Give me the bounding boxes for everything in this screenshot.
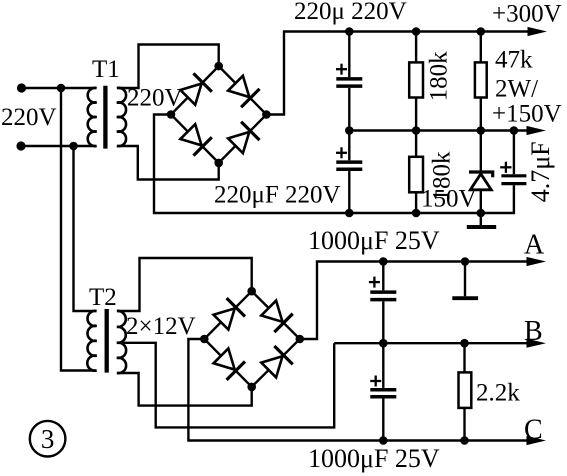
resistor R2 180k bbox=[409, 131, 423, 214]
bridge1 diode D1 (left to top) bbox=[179, 73, 212, 106]
svg-text:T2: T2 bbox=[89, 284, 117, 311]
transformer T2 core bbox=[105, 309, 109, 373]
wire input top bbox=[22, 87, 97, 89]
node bridge1 left bbox=[167, 110, 176, 119]
svg-text:1000μF 25V: 1000μF 25V bbox=[308, 444, 440, 473]
arrow +300V bbox=[528, 27, 548, 36]
bridge2 diode D7 (left to bottom) bbox=[212, 347, 245, 380]
wire bridge2 plus to rail A bbox=[300, 262, 529, 340]
node R1 bottom bbox=[412, 126, 421, 135]
wire T2 secondary top to bridge2 AC top bbox=[117, 258, 252, 311]
svg-text:+150V: +150V bbox=[492, 100, 562, 127]
node R2 bottom rail bbox=[412, 209, 421, 218]
node junction bottom feed bbox=[69, 142, 78, 151]
svg-text:T1: T1 bbox=[92, 56, 120, 83]
wire feed right to T2 primary top bbox=[74, 146, 97, 311]
node C5 bottom rail C bbox=[379, 436, 388, 445]
node C3 top bbox=[510, 126, 519, 135]
bridge2 diode D5 (left to top) bbox=[212, 298, 245, 331]
svg-text:B: B bbox=[524, 316, 543, 347]
node C4 top bbox=[379, 257, 388, 266]
wire T1 secondary bottom to bridge1 AC bottom bbox=[117, 146, 219, 180]
ground symbol rail A bbox=[452, 262, 478, 299]
bridge1 diamond wires bbox=[171, 66, 266, 163]
svg-text:2×12V: 2×12V bbox=[126, 313, 196, 340]
capacitor C1 220u top bbox=[336, 32, 362, 131]
node mid caps bbox=[345, 126, 354, 135]
node bridge1 right bbox=[262, 110, 271, 119]
svg-text:2W/: 2W/ bbox=[495, 76, 538, 103]
capacitor C2 220uF bottom bbox=[336, 131, 362, 214]
zener diode VD1 bbox=[469, 131, 493, 214]
svg-text:220V: 220V bbox=[1, 104, 57, 131]
transformer T2 secondary winding bbox=[117, 311, 126, 373]
arrow +150V bbox=[527, 126, 547, 135]
svg-text:1000μF 25V: 1000μF 25V bbox=[308, 226, 440, 255]
transformer T1 core bbox=[103, 86, 107, 149]
ground symbol top circuit bbox=[467, 213, 496, 227]
transformer T2 primary winding bbox=[87, 311, 96, 371]
node R3 bottom bbox=[477, 126, 486, 135]
bridge2 diode D6 (top to right) bbox=[259, 299, 292, 332]
node bridge1 bottom bbox=[214, 159, 223, 168]
node bridge2 left bbox=[200, 335, 209, 344]
wire input bottom bbox=[21, 145, 97, 147]
figure number circle 3 bbox=[30, 421, 66, 457]
transformer T1 primary winding bbox=[88, 88, 97, 146]
svg-text:220μF 220V: 220μF 220V bbox=[214, 181, 341, 208]
node C1 top rail bbox=[345, 27, 354, 36]
terminal input bottom bbox=[16, 141, 25, 150]
wire T2 center tap to rail B bbox=[117, 343, 334, 428]
node bridge2 right bbox=[296, 335, 305, 344]
svg-text:180k: 180k bbox=[426, 51, 453, 102]
svg-text:220μ 220V: 220μ 220V bbox=[294, 0, 407, 25]
resistor R1 180k bbox=[409, 32, 423, 131]
svg-text:3: 3 bbox=[41, 424, 55, 454]
bridge2 diode D8 (bottom to right) bbox=[259, 346, 292, 379]
resistor R3 47k bbox=[475, 32, 487, 131]
node junction top feed bbox=[57, 84, 66, 93]
node bridge2 bottom bbox=[247, 383, 256, 392]
wire rail B bbox=[334, 342, 529, 344]
terminal input top bbox=[17, 83, 26, 92]
wire bridge1 minus to bottom rail bbox=[154, 115, 514, 214]
wire feed left to T2 primary bottom bbox=[61, 88, 97, 371]
bridge1 diode D4 (bottom to right) bbox=[226, 122, 259, 155]
transformer T1 secondary winding bbox=[117, 88, 126, 146]
svg-text:C: C bbox=[524, 415, 543, 446]
svg-text:A: A bbox=[524, 230, 545, 261]
svg-text:2.2k: 2.2k bbox=[476, 380, 520, 407]
wire bridge2 minus to rail C bbox=[188, 339, 529, 441]
node C2 bottom rail bbox=[345, 209, 354, 218]
node R1 top bbox=[412, 27, 421, 36]
bridge1 diode D2 (top to right) bbox=[226, 74, 259, 107]
capacitor C5 1000uF bbox=[370, 343, 396, 440]
wire T2 secondary bottom to bridge2 AC bottom bbox=[117, 373, 252, 406]
svg-text:4.7μF: 4.7μF bbox=[526, 141, 555, 202]
arrow B bbox=[527, 339, 547, 348]
wire +150V rail bbox=[349, 129, 529, 131]
resistor R4 2.2k bbox=[459, 343, 472, 440]
svg-text:+300V: +300V bbox=[492, 1, 562, 28]
node R3 top bbox=[477, 27, 486, 36]
bridge1 diode D3 (left to bottom) bbox=[179, 122, 212, 155]
node bridge1 top bbox=[214, 62, 223, 71]
wire bridge1 plus to +300V rail bbox=[266, 32, 529, 115]
node R4 bottom rail C bbox=[460, 436, 469, 445]
wire T1 secondary top to bridge1 AC top bbox=[117, 45, 219, 89]
node zener bottom rail bbox=[477, 209, 486, 218]
node bridge2 top bbox=[247, 287, 256, 296]
arrow C bbox=[527, 436, 547, 445]
node R4 top rail B bbox=[460, 339, 469, 348]
node ground rail A bbox=[461, 257, 470, 266]
capacitor C4 1000uF bbox=[369, 262, 396, 344]
capacitor C3 4.7uF bbox=[500, 131, 526, 184]
svg-text:150V: 150V bbox=[421, 186, 477, 213]
svg-text:47k: 47k bbox=[495, 46, 533, 73]
bridge2 diamond wires bbox=[204, 291, 299, 387]
arrow A bbox=[527, 257, 547, 266]
node C4 bottom rail B bbox=[379, 339, 388, 348]
